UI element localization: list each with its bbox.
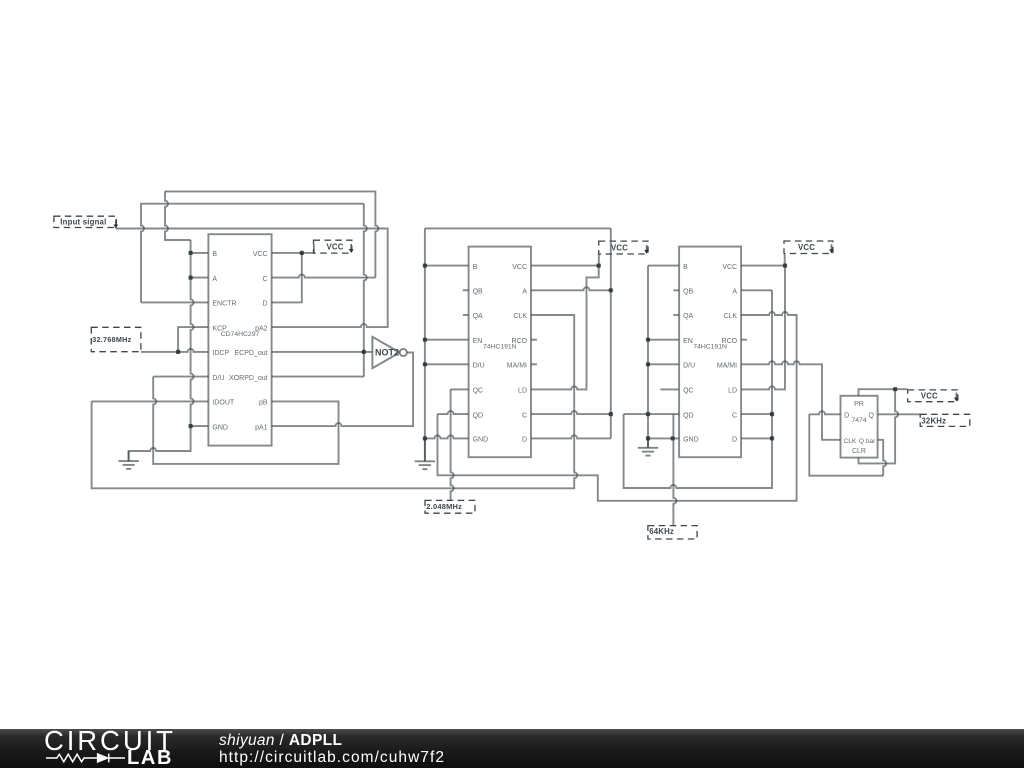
junction GND IC1 [189,424,193,428]
ground symbol near IC3 [638,438,658,455]
wire D row 7474 [809,411,840,414]
svg-text:B: B [473,264,478,271]
wire A/C/D bus IC3 [624,290,772,488]
node Input signal flag [54,216,117,227]
svg-text:VCC: VCC [921,392,938,401]
svg-text:XORPD_out: XORPD_out [229,375,268,382]
svg-text:ECPD_out: ECPD_out [235,350,268,357]
wire stub QC IC3 [660,388,679,390]
svg-text:RCO: RCO [722,338,738,345]
junction C IC2 [609,412,613,416]
power VCC1 arrow [349,244,354,253]
wire input signal to pA2 [116,229,388,328]
svg-text:QA: QA [473,313,483,320]
wire Qbar stub 7474 [878,440,887,476]
junction D/U IC2 [423,362,427,366]
power VCC flag 4 [908,390,958,402]
junction A IC1 [189,276,193,280]
svg-text:B: B [212,251,217,258]
svg-text:MA/MI: MA/MI [717,363,737,370]
wire QC IC2 to 2.048MHz flag [451,389,454,500]
junction ECPD_out / NOT2 input [362,350,366,354]
svg-text:VCC: VCC [722,264,737,271]
svg-text:D/U: D/U [473,363,485,370]
svg-text:VCC: VCC [327,243,344,252]
wire vertical ECPD/XORPD drop [364,204,367,377]
svg-text:VCC: VCC [512,264,527,271]
junction VCC IC1 [300,251,304,255]
wire pin D IC2 [531,435,611,438]
wire VCC3 lead [784,254,786,266]
svg-text:pB: pB [259,400,268,407]
wire PR 7474 to VCC [859,389,908,396]
svg-text:D: D [522,437,527,444]
counter U2 74HC191N body [469,247,531,458]
wire pin B IC3 jog [648,265,679,267]
svg-text:D: D [732,437,737,444]
svg-text:CLK: CLK [723,313,737,320]
svg-text:QB: QB [473,289,483,296]
junction PR/VCC 7474 [893,387,897,391]
wire pin EN IC3 [648,339,679,341]
wire stub RCO IC2 [531,339,537,341]
wire top jumper IC2 [425,227,611,229]
wire pin D IC3 [741,437,772,439]
svg-text:EN: EN [473,338,483,345]
wire pin GND row IC3 [648,437,679,439]
flip-flop U4 7474 body [841,396,878,458]
junction A IC2 [609,288,613,292]
svg-text:CLK: CLK [513,313,527,320]
wire KCP row IC1 [178,327,208,352]
wire pin GND IC1 stub [191,425,209,427]
wire VCC2 jog to LD IC2 [531,266,599,390]
wire QC row IC2 [451,388,469,390]
wire VCC1 lead [313,245,315,253]
wire pin A IC3 [741,289,772,291]
wire IDOUT long run to CLK IC2 [92,315,578,488]
wire D/U row IC1 [153,376,208,378]
svg-text:C: C [522,412,527,419]
wire MA/MI IC3 to CLK 7474 [741,361,840,440]
wire pin D/U IC3 [648,363,679,365]
svg-text:A: A [732,289,737,296]
svg-text:C: C [732,412,737,419]
wire GND IC1 to ground [129,426,191,461]
svg-text:IDOUT: IDOUT [212,400,235,407]
power VCC4 arrow [954,393,959,402]
svg-text:A: A [212,276,217,283]
svg-text:LD: LD [518,388,527,395]
svg-text:ENCTR: ENCTR [212,301,236,308]
svg-text:CLR: CLR [852,448,866,455]
wire D/U to pB loop [153,377,338,464]
svg-text:CLK: CLK [844,438,857,445]
wire pin B IC1 stub [191,252,209,254]
ground symbol near IC1 [118,451,138,469]
wire stub QA IC3 [673,314,679,316]
power VCC2 arrow [644,245,649,254]
power VCC3 arrow [829,244,834,253]
wire IDCP row from 32.768MHz label [141,349,209,352]
junction B IC2 [423,264,427,268]
wire pin C IC2 [531,411,611,414]
svg-text:PR: PR [854,401,864,408]
junction EN IC3 [646,338,650,342]
junction ground bus QD row IC3 [646,412,650,416]
svg-text:GND: GND [212,424,228,431]
wire VCC row IC2 [531,265,599,267]
wire XORPD_out row IC1 [208,376,363,378]
svg-text:VCC: VCC [611,243,628,252]
wire stub QB IC3 [673,289,679,291]
node 2.048MHz flag [425,500,475,513]
counter U3 74HC191N body [679,247,741,458]
wire Q 7474 to 32KHz flag [878,413,921,415]
wire pin D/U IC2 [425,363,469,365]
junction KCP/IDCP [176,350,180,354]
wire VCC row IC1 [272,252,314,254]
svg-text:IDCP: IDCP [212,350,229,357]
svg-text:C: C [263,276,268,283]
wire VCC2 lead [598,254,600,266]
wire pin EN IC2 [425,339,469,341]
svg-text:KCP: KCP [212,325,227,332]
junction VCC IC3 [783,264,787,268]
junction GND IC3 [646,436,650,440]
svg-text:D: D [844,413,849,420]
svg-text:D: D [263,301,268,308]
junction D IC3 [770,436,774,440]
wire C-row IC1 (C pin to top feedback) [272,275,376,278]
inverter NOT2 [372,337,407,368]
wire pin B IC2 [425,265,469,267]
wire QD IC3 to 64KHz flag [673,414,676,525]
wire pin A IC2 [531,287,611,290]
wire D to Qbar loop [809,414,883,475]
svg-text:32.768MHz: 32.768MHz [92,335,131,344]
wire top feedback 2 (ENCTR to ECPD/XORPD) [141,204,364,303]
svg-text:GND: GND [683,437,699,444]
wire top feedback 1 (C to B/A/GND chain) [165,191,378,277]
wire left ground bus IC2 [424,228,426,438]
svg-text:pA1: pA1 [255,424,268,431]
wire right ground bus IC2 [610,228,612,438]
wire GND IC2 to ground [424,438,426,461]
junction GND IC2 [423,436,427,440]
svg-text:RCO: RCO [511,338,527,345]
wire left ground bus IC3 [647,266,649,448]
svg-text:QC: QC [473,388,484,395]
svg-text:QD: QD [683,412,694,419]
junction VCC IC2 [597,264,601,268]
wire B/A/GND vertical bus IC1 [191,240,194,426]
svg-text:D/U: D/U [212,375,224,382]
svg-text:VCC: VCC [253,251,268,258]
wire pin A IC1 stub [191,277,209,279]
wire VCC to D pin IC1 [272,253,302,303]
op-amp U1 CD74HC297 body [208,234,271,445]
svg-text:7474: 7474 [851,417,866,424]
power VCC flag 3 [784,241,833,254]
junction GND row 64KHz tap [671,436,675,440]
svg-text:Q: Q [869,413,875,420]
wire VCC3 to LD IC3 [741,266,785,390]
junction D/U IC3 [646,362,650,366]
svg-text:EN: EN [683,338,693,345]
node Input signal pin arrow [113,220,118,229]
wire NOT2 output to pA1 [272,353,414,427]
svg-text:QC: QC [683,388,694,395]
node 32.768MHz flag [91,327,141,351]
svg-text:A: A [522,289,527,296]
wire QD row IC3 [624,413,680,415]
wire VCC row IC3 [741,265,785,267]
CircuitLab logo [44,731,176,766]
power VCC flag 2 [599,241,648,254]
svg-text:MA/MI: MA/MI [507,363,527,370]
wire pin GND row IC2 [425,435,469,438]
wire stub QA IC2 [463,314,469,316]
svg-text:GND: GND [473,437,489,444]
wire stub MA/MI IC2 [531,363,537,365]
svg-text:Input signal: Input signal [60,218,106,227]
junction B IC1 [189,251,193,255]
svg-text:QB: QB [683,289,693,296]
wire ENCTR row IC1 [141,301,208,303]
wire VCC4 to CLR 7474 [859,389,899,463]
svg-text:B: B [683,264,688,271]
node 64KHz flag [648,526,697,539]
power VCC flag 1 [314,240,352,253]
svg-text:VCC: VCC [798,243,815,252]
svg-text:64KHz: 64KHz [649,527,674,536]
svg-text:Q bar: Q bar [859,438,876,445]
svg-text:QD: QD [473,412,484,419]
svg-text:2.048MHz: 2.048MHz [426,502,462,511]
wire QD row IC2 [438,411,469,414]
svg-text:pA2: pA2 [255,325,268,332]
ground symbol near IC2 [415,438,435,469]
wire ECPD_out row IC1 to NOT2 input [272,351,373,353]
svg-text:D/U: D/U [683,363,695,370]
svg-text:QA: QA [683,313,693,320]
wire IDOUT row IC1 [92,400,209,402]
svg-text:32KHz: 32KHz [921,417,946,426]
wire left drop from top feedback 1 [165,191,191,240]
node 32KHz flag [920,414,970,426]
svg-text:LD: LD [728,388,737,395]
wire stub RCO IC3 [741,339,747,341]
junction C IC3 [770,412,774,416]
wire QD IC2 to CLK IC3 [438,312,797,501]
junction EN IC2 [423,338,427,342]
svg-text:NOT2: NOT2 [375,347,399,357]
wire pin C IC3 [741,413,772,415]
wire stub QB IC2 [463,289,469,291]
